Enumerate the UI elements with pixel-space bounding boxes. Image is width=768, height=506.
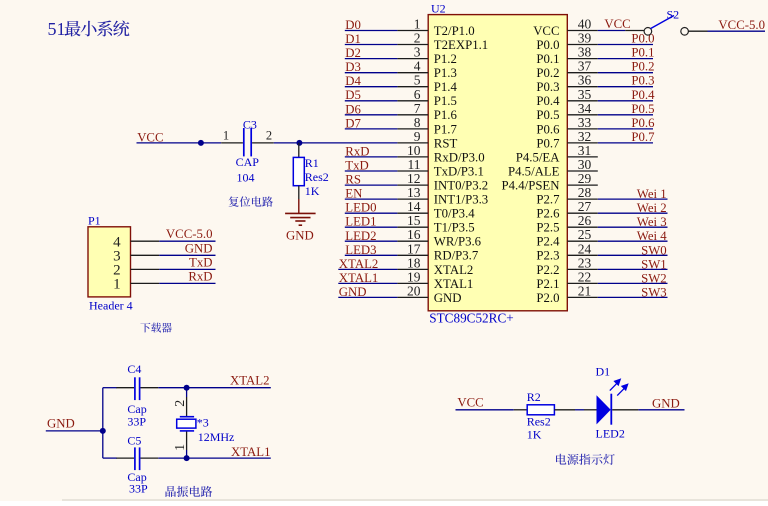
resistor R1 (293, 143, 304, 199)
U2 pin 34 (P0.5) (536, 101, 597, 122)
svg-text:15: 15 (407, 213, 421, 228)
wire net SW1 (598, 268, 668, 270)
U2 pin 2 (T2EXP1.1) (397, 31, 488, 52)
wire net GND (338, 296, 397, 298)
wire net XTAL1 (187, 457, 271, 459)
U2 pin 15 (T1/P3.5) (397, 213, 474, 234)
svg-text:33P: 33P (129, 482, 148, 496)
svg-text:VCC: VCC (604, 17, 630, 31)
U2 pin 35 (P0.4) (536, 87, 597, 108)
svg-text:Wei 4: Wei 4 (637, 229, 667, 243)
U2 pin 30 (P4.5/ALE) (508, 157, 598, 178)
svg-text:XTAL1: XTAL1 (339, 271, 379, 285)
svg-text:TxD: TxD (189, 255, 212, 269)
svg-text:GND: GND (434, 291, 462, 305)
svg-text:26: 26 (578, 213, 592, 228)
IC U2 body STC89C52RC+ (428, 15, 567, 311)
svg-text:XTAL1: XTAL1 (434, 277, 474, 291)
svg-text:VCC-5.0: VCC-5.0 (718, 18, 765, 32)
svg-text:P1.4: P1.4 (434, 80, 458, 94)
svg-text:EN: EN (345, 187, 362, 201)
junction XTAL1 node (184, 455, 190, 461)
svg-text:24: 24 (578, 241, 592, 256)
svg-text:*3: *3 (197, 416, 209, 430)
wire C3 to RST node (274, 142, 300, 144)
svg-text:D5: D5 (345, 88, 361, 102)
svg-text:T1/P3.5: T1/P3.5 (434, 221, 475, 235)
svg-text:34: 34 (578, 101, 592, 116)
svg-text:38: 38 (578, 45, 592, 60)
U2 pin 40 (VCC) (533, 17, 598, 38)
svg-text:D1: D1 (345, 32, 361, 46)
svg-text:D1: D1 (596, 365, 611, 379)
U2 pin 22 (P2.1) (536, 269, 597, 290)
svg-text:VCC: VCC (533, 24, 559, 38)
wire net P0.5 (598, 114, 653, 116)
wire net D1 (345, 44, 398, 46)
svg-text:P0.0: P0.0 (536, 38, 559, 52)
svg-text:VCC-5.0: VCC-5.0 (166, 227, 213, 241)
wire net XTAL1 (338, 282, 397, 284)
wire net D7 (345, 128, 398, 130)
svg-text:P2.2: P2.2 (536, 263, 559, 277)
wire net P0.7 (598, 142, 653, 144)
wire RST node to U2 RST pin (299, 142, 397, 144)
U2 pin 18 (XTAL2) (397, 255, 473, 276)
wire net LED1 (345, 226, 398, 228)
wire net Wei 3 (598, 226, 668, 228)
U2 pin 23 (P2.2) (536, 255, 597, 276)
svg-text:1: 1 (223, 129, 229, 143)
wire net D5 (345, 100, 398, 102)
wire net D6 (345, 114, 398, 116)
svg-text:P1.5: P1.5 (434, 94, 457, 108)
svg-text:P0.3: P0.3 (631, 74, 654, 88)
wire net P0.0 (598, 44, 653, 46)
U2 pin 8 (P1.7) (397, 115, 457, 136)
svg-text:STC89C52RC+: STC89C52RC+ (429, 311, 513, 326)
wire net RxD (159, 282, 215, 284)
svg-text:P0.6: P0.6 (536, 122, 560, 136)
svg-text:104: 104 (237, 171, 255, 185)
svg-text:29: 29 (578, 171, 592, 186)
svg-text:28: 28 (578, 185, 592, 200)
wire C5 to XTAL1 node (158, 457, 186, 459)
svg-text:SW1: SW1 (641, 257, 667, 271)
wire net RS (345, 184, 398, 186)
svg-text:7: 7 (414, 101, 421, 116)
svg-text:33P: 33P (127, 415, 146, 429)
svg-text:P0.4: P0.4 (536, 94, 560, 108)
svg-text:P2.4: P2.4 (536, 235, 560, 249)
svg-text:21: 21 (578, 283, 592, 298)
svg-text:P0.2: P0.2 (631, 60, 654, 74)
svg-text:VCC: VCC (137, 130, 163, 144)
U2 pin 38 (P0.1) (536, 45, 597, 66)
svg-text:C5: C5 (127, 433, 141, 447)
U2 pin 20 (GND) (397, 283, 461, 304)
wire net SW0 (598, 254, 668, 256)
svg-text:SW0: SW0 (641, 243, 667, 257)
svg-text:P2.6: P2.6 (536, 207, 560, 221)
svg-text:51: 51 (48, 19, 66, 39)
svg-text:D4: D4 (345, 74, 361, 88)
svg-text:40: 40 (578, 17, 592, 32)
svg-text:31: 31 (578, 143, 592, 158)
svg-text:Wei 3: Wei 3 (637, 215, 667, 229)
U2 pin 39 (P0.0) (536, 31, 597, 52)
svg-text:2: 2 (266, 129, 272, 143)
svg-text:22: 22 (578, 269, 592, 284)
svg-text:C3: C3 (243, 118, 257, 132)
annotation 电源指示灯 (power indicator LED) (556, 454, 615, 465)
svg-text:XTAL2: XTAL2 (230, 373, 270, 387)
wire net D0 (345, 30, 398, 32)
wire net LED3 (345, 254, 398, 256)
svg-text:14: 14 (407, 199, 421, 214)
svg-text:GND: GND (339, 285, 367, 299)
svg-text:XTAL1: XTAL1 (231, 445, 271, 459)
junction (198, 140, 204, 146)
svg-text:RxD/P3.0: RxD/P3.0 (434, 150, 485, 164)
svg-text:36: 36 (578, 73, 592, 88)
U2 pin 10 (RxD/P3.0) (397, 143, 484, 164)
svg-text:SW2: SW2 (641, 271, 667, 285)
U2 pin 29 (P4.4/PSEN) (502, 171, 598, 192)
U2 pin 1 (T2/P1.0) (397, 17, 474, 38)
svg-text:GND: GND (185, 241, 213, 255)
capacitor C4 (116, 377, 158, 400)
U2 pin 26 (P2.5) (536, 213, 597, 234)
svg-text:T2EXP1.1: T2EXP1.1 (434, 38, 488, 52)
svg-text:3: 3 (414, 45, 421, 60)
svg-text:D7: D7 (345, 116, 361, 130)
U2 pin 14 (T0/P3.4) (397, 199, 475, 220)
svg-text:1K: 1K (305, 184, 320, 198)
svg-text:XTAL2: XTAL2 (434, 263, 474, 277)
svg-text:6: 6 (414, 87, 421, 102)
connector P1 body (88, 227, 131, 297)
svg-text:U2: U2 (431, 2, 446, 16)
wire net EN (345, 198, 398, 200)
svg-text:13: 13 (407, 185, 421, 200)
svg-text:C4: C4 (127, 362, 141, 376)
svg-text:27: 27 (578, 199, 592, 214)
junction XTAL2 node (184, 385, 190, 391)
svg-text:VCC: VCC (457, 396, 483, 410)
annotation 下载器 (downloader) (140, 323, 171, 333)
wire net LED2 (345, 240, 398, 242)
wire net P0.4 (598, 100, 653, 102)
svg-text:P0.5: P0.5 (536, 108, 559, 122)
svg-text:12: 12 (407, 171, 421, 186)
wire net XTAL2 (338, 268, 397, 270)
wire R2 to D1 (575, 409, 584, 411)
svg-text:SW3: SW3 (641, 285, 667, 299)
U2 pin 33 (P0.6) (536, 115, 597, 136)
svg-text:S2: S2 (667, 8, 680, 22)
junction RST node (296, 140, 302, 146)
U2 pin 19 (XTAL1) (397, 269, 473, 290)
svg-text:P2.0: P2.0 (536, 291, 559, 305)
svg-text:P4.5/EA: P4.5/EA (516, 150, 560, 164)
svg-text:P1.2: P1.2 (434, 52, 457, 66)
svg-text:P0.6: P0.6 (631, 116, 655, 130)
U2 pin 5 (P1.4) (397, 73, 457, 94)
wire VCC to C3 (137, 142, 222, 144)
wire net D4 (345, 86, 398, 88)
svg-text:GND: GND (286, 228, 314, 242)
svg-text:R2: R2 (527, 390, 541, 404)
svg-text:INT0/P3.2: INT0/P3.2 (434, 179, 488, 193)
svg-text:2: 2 (173, 400, 188, 407)
wire net SW3 (598, 296, 668, 298)
wire GND to rail (46, 430, 103, 432)
svg-text:RxD: RxD (188, 269, 212, 283)
svg-text:P0.1: P0.1 (536, 52, 559, 66)
svg-text:32: 32 (578, 129, 592, 144)
svg-text:D0: D0 (345, 18, 361, 32)
U2 pin 4 (P1.3) (397, 59, 457, 80)
svg-text:16: 16 (407, 227, 421, 242)
wire net P0.2 (598, 72, 653, 74)
P1 pin 4 (113, 234, 159, 250)
svg-text:Res2: Res2 (305, 170, 329, 184)
svg-text:RST: RST (434, 136, 458, 150)
svg-text:RD/P3.7: RD/P3.7 (434, 249, 479, 263)
wire C4 to XTAL2 node (158, 387, 186, 389)
svg-text:P4.5/ALE: P4.5/ALE (508, 164, 560, 178)
svg-text:P0.2: P0.2 (536, 66, 559, 80)
U2 pin 31 (P4.5/EA) (516, 143, 598, 164)
svg-text:P2.3: P2.3 (536, 249, 559, 263)
svg-text:18: 18 (407, 255, 421, 270)
svg-text:Header 4: Header 4 (89, 299, 133, 313)
U2 pin 17 (RD/P3.7) (397, 241, 478, 262)
wire net P0.1 (598, 58, 653, 60)
U2 pin 16 (WR/P3.6) (397, 227, 481, 249)
svg-text:P0.7: P0.7 (631, 130, 655, 144)
svg-text:37: 37 (578, 59, 592, 74)
svg-text:39: 39 (578, 31, 592, 46)
P1 pin 1 (113, 277, 159, 293)
wire net LED0 (345, 212, 398, 214)
svg-text:P2.7: P2.7 (536, 193, 560, 207)
LED D1 (584, 379, 638, 424)
wire net TxD (345, 170, 398, 172)
svg-text:19: 19 (407, 269, 421, 284)
svg-text:GND: GND (652, 397, 680, 411)
svg-text:5: 5 (414, 73, 421, 88)
U2 pin 6 (P1.5) (397, 87, 457, 108)
svg-text:17: 17 (407, 241, 421, 256)
svg-text:P0.1: P0.1 (631, 46, 654, 60)
svg-text:P1.3: P1.3 (434, 66, 457, 80)
svg-text:P0.7: P0.7 (536, 136, 560, 150)
svg-text:1K: 1K (527, 428, 542, 442)
svg-text:Wei 2: Wei 2 (637, 201, 667, 215)
svg-text:Res2: Res2 (527, 414, 551, 428)
annotation 复位电路 (reset circuit) (229, 196, 273, 206)
svg-text:P0.3: P0.3 (536, 80, 559, 94)
U2 pin 13 (INT1/P3.3) (397, 185, 488, 206)
svg-text:33: 33 (578, 115, 592, 130)
wire top rail to C4 (103, 387, 117, 389)
svg-text:T2/P1.0: T2/P1.0 (434, 24, 475, 38)
wire net VCC-5.0 (159, 240, 215, 242)
wire net Wei 2 (598, 212, 668, 214)
svg-text:D2: D2 (345, 46, 361, 60)
wire VCC to S2 (598, 30, 625, 32)
svg-text:1: 1 (113, 277, 121, 293)
svg-text:P2.5: P2.5 (536, 221, 559, 235)
U2 pin 37 (P0.2) (536, 59, 597, 80)
svg-text:P1.7: P1.7 (434, 122, 458, 136)
U2 pin 28 (P2.7) (536, 185, 597, 206)
wire net XTAL2 (187, 387, 271, 389)
U2 pin 36 (P0.3) (536, 73, 597, 94)
U2 pin 25 (P2.4) (536, 227, 597, 249)
svg-text:GND: GND (47, 417, 75, 431)
svg-text:RxD: RxD (345, 144, 369, 158)
wire net Wei 4 (598, 240, 668, 242)
svg-text:XTAL2: XTAL2 (339, 257, 379, 271)
svg-text:11: 11 (408, 157, 421, 172)
switch S2 (625, 16, 707, 36)
svg-text:WR/P3.6: WR/P3.6 (434, 235, 482, 249)
U2 pin 9 (RST) (397, 129, 457, 150)
svg-text:9: 9 (414, 129, 421, 144)
U2 pin 3 (P1.2) (397, 45, 457, 66)
svg-text:12MHz: 12MHz (198, 430, 235, 444)
U2 pin 32 (P0.7) (536, 129, 597, 150)
svg-text:1: 1 (173, 444, 188, 451)
svg-text:20: 20 (407, 283, 421, 298)
wire net P0.6 (598, 128, 653, 130)
annotation 晶振电路 (crystal circuit) (166, 486, 213, 497)
svg-text:LED2: LED2 (596, 427, 625, 441)
U2 pin 12 (INT0/P3.2) (397, 171, 488, 192)
svg-text:2: 2 (414, 31, 421, 46)
svg-text:TxD/P3.1: TxD/P3.1 (434, 164, 484, 178)
svg-text:CAP: CAP (236, 155, 260, 169)
wire net RxD (345, 156, 398, 158)
svg-text:LED3: LED3 (345, 243, 376, 257)
svg-text:P4.4/PSEN: P4.4/PSEN (502, 179, 560, 193)
svg-text:10: 10 (407, 143, 421, 158)
svg-text:RS: RS (345, 173, 361, 187)
svg-text:P2.1: P2.1 (536, 277, 559, 291)
svg-text:LED0: LED0 (345, 201, 376, 215)
wire D1 to GND (638, 409, 684, 411)
wire VCC to R2 (456, 409, 514, 411)
svg-text:1: 1 (414, 17, 421, 32)
svg-text:P1.6: P1.6 (434, 108, 458, 122)
wire net D3 (345, 72, 398, 74)
ground GND (reset) (285, 199, 316, 242)
svg-text:TxD: TxD (345, 159, 368, 173)
svg-text:23: 23 (578, 255, 592, 270)
crystal Y (*3 12MHz) (177, 388, 196, 458)
svg-text:LED2: LED2 (345, 229, 376, 243)
svg-text:P0.5: P0.5 (631, 102, 654, 116)
svg-text:LED1: LED1 (345, 215, 376, 229)
svg-text:D6: D6 (345, 102, 361, 116)
U2 pin 27 (P2.6) (536, 199, 597, 220)
sheet bottom border (62, 499, 768, 501)
svg-text:T0/P3.4: T0/P3.4 (434, 207, 475, 221)
junction (100, 428, 106, 434)
svg-text:4: 4 (414, 59, 421, 74)
U2 pin 21 (P2.0) (536, 283, 597, 304)
wire net SW2 (598, 282, 668, 284)
wire left vertical rail (102, 388, 104, 458)
capacitor C3 (221, 128, 274, 156)
schematic title 51最小系统 (48, 19, 130, 39)
svg-text:R1: R1 (305, 156, 319, 170)
svg-text:INT1/P3.3: INT1/P3.3 (434, 193, 488, 207)
wire net VCC-5.0 (708, 30, 766, 32)
U2 pin 7 (P1.6) (397, 101, 457, 122)
wire net GND (159, 254, 215, 256)
U2 pin 11 (TxD/P3.1) (397, 157, 484, 178)
wire net TxD (159, 268, 215, 270)
wire net P0.3 (598, 86, 653, 88)
svg-text:D3: D3 (345, 60, 361, 74)
svg-text:25: 25 (578, 227, 592, 242)
svg-text:P0.4: P0.4 (631, 88, 655, 102)
svg-text:30: 30 (578, 157, 592, 172)
svg-text:35: 35 (578, 87, 592, 102)
U2 pin 24 (P2.3) (536, 241, 597, 262)
resistor R2 (514, 405, 575, 415)
capacitor C5 (116, 447, 158, 470)
wire net D2 (345, 58, 398, 60)
svg-text:Wei 1: Wei 1 (637, 187, 667, 201)
wire net Wei 1 (598, 198, 668, 200)
P1 pin 2 (113, 263, 159, 279)
wire bottom rail to C5 (103, 457, 117, 459)
svg-text:8: 8 (414, 115, 421, 130)
svg-text:P1: P1 (88, 213, 101, 227)
P1 pin 3 (113, 249, 159, 265)
